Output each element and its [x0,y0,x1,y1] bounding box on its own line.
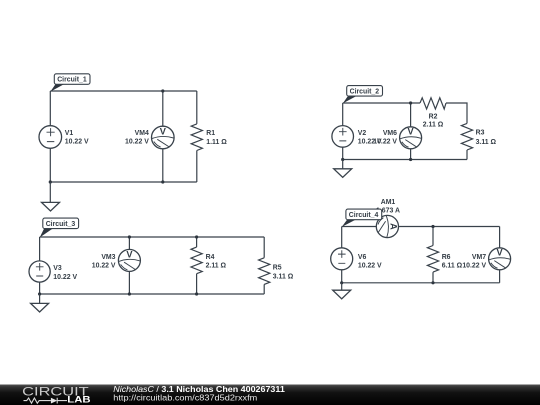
wire VM4 leads [162,91,164,182]
wire VM3 leads [128,237,130,294]
ammeter AM1 [376,215,398,237]
wire R3 bottom lead [466,150,468,160]
svg-text:10.22 V: 10.22 V [125,139,149,146]
svg-text:10.22 V: 10.22 V [65,139,89,146]
junction dot C3 bottom V3 [38,292,41,295]
svg-text:V6: V6 [358,254,367,261]
wire bottom C2 [343,159,467,161]
svg-text:LAB: LAB [67,395,91,405]
tag Circuit_1 [50,74,90,92]
wire right VM7 leads [499,227,501,283]
wire R6 leads [432,227,434,283]
svg-text:Circuit_3: Circuit_3 [46,221,76,228]
svg-text:10.22 V: 10.22 V [358,263,382,270]
wire R4 leads [196,237,198,294]
junction dot C3 bottom R4 [195,292,198,295]
resistor R4 [191,247,227,274]
svg-text:2.11 Ω: 2.11 Ω [206,263,227,270]
svg-text:6.11 Ω: 6.11 Ω [442,263,463,270]
wire V2 leads [342,103,344,160]
svg-text:Circuit_1: Circuit_1 [57,77,87,84]
svg-text:1.11 Ω: 1.11 Ω [206,139,227,146]
wire R5 leads [263,237,265,294]
ground C3 [31,294,49,312]
wire bottom C3 [40,293,265,295]
wire V1 leads [49,91,51,182]
resistor R6 [427,246,462,273]
junction dot C4 top R6 [431,225,434,228]
svg-text:V1: V1 [65,130,74,137]
svg-text:VM3: VM3 [101,254,115,261]
resistor R5 [259,258,294,285]
wire V6 leads [341,227,343,283]
ground C2 [334,160,352,178]
junction dot C4 bottom V6 [340,281,343,284]
wire R2 right lead to corner [446,103,467,123]
svg-text:R3: R3 [476,130,485,137]
resistor R3 [461,123,496,150]
junction dot C1 bottom VM4 [161,180,164,183]
wire top C1 [50,90,197,92]
voltmeter VM3 [92,249,141,271]
svg-text:V3: V3 [53,265,62,272]
svg-text:http://circuitlab.com/c837d5d2: http://circuitlab.com/c837d5d2rxxfm [113,393,257,402]
resistor R2 (horizontal) [420,98,446,129]
junction dot C4 bottom R6 [431,281,434,284]
svg-text:A: A [389,223,399,230]
svg-text:10.22 V: 10.22 V [373,138,397,145]
svg-text:V: V [160,126,167,136]
junction dot C3 bottom VM3 [128,292,131,295]
wire bottom C4 [342,282,500,284]
wire top C4 [342,226,500,228]
svg-text:10.22 V: 10.22 V [53,274,77,281]
wire R1 leads [196,91,198,182]
svg-text:R5: R5 [273,264,282,271]
voltage source V1 [39,126,89,149]
voltage source V3 [29,261,77,282]
svg-text:R6: R6 [442,254,451,261]
wire VM6 leads [410,103,412,160]
svg-text:R2: R2 [429,113,438,120]
svg-text:VM7: VM7 [472,254,486,261]
svg-text:Circuit_2: Circuit_2 [350,88,380,95]
svg-text:AM1: AM1 [381,199,396,206]
svg-text:V: V [126,249,133,259]
svg-text:VM6: VM6 [383,130,397,137]
voltmeter VM7 [462,248,510,270]
wire top C3 [40,236,265,238]
tag Circuit_3 [40,218,79,237]
svg-text:3.11 Ω: 3.11 Ω [476,139,497,146]
voltmeter VM6 [373,127,421,149]
resistor R1 [191,124,227,151]
svg-text:10.22 V: 10.22 V [462,263,486,270]
tag Circuit_2 [343,86,383,104]
junction dot C3 top R4 [195,235,198,238]
svg-text:2.11 Ω: 2.11 Ω [423,122,444,129]
svg-text:V: V [408,127,415,137]
svg-text:R1: R1 [206,130,215,137]
wire V3 leads [39,237,41,294]
junction dot C1 bottom V1 [49,180,52,183]
junction dot C2 bottom V2 [341,158,344,161]
voltmeter VM4 [125,126,174,149]
svg-text:V2: V2 [358,130,367,137]
junction dot C2 bottom VM6 [409,158,412,161]
wire bottom C1 [50,181,197,183]
junction dot C1 top VM4 [161,89,164,92]
ground C1 [42,182,60,211]
junction dot C2 top VM6 [409,101,412,104]
svg-text:10.22 V: 10.22 V [92,263,116,270]
svg-text:Circuit_4: Circuit_4 [349,212,379,219]
svg-text:VM4: VM4 [135,130,149,137]
svg-text:R4: R4 [206,254,215,261]
ground C4 [333,283,351,299]
svg-text:V: V [497,248,504,258]
svg-text:3.11 Ω: 3.11 Ω [273,273,294,280]
voltage source V6 [331,248,382,270]
logo diode arrow [51,398,57,404]
logo squiggle wire [24,398,51,403]
junction dot C3 top VM3 [128,235,131,238]
tag Circuit_4 [342,209,382,227]
voltage source V2 [332,126,382,148]
wire top C2 [343,102,420,104]
